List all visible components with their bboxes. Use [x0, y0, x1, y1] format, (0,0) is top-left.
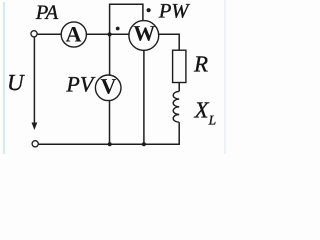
polarity dot current coil [116, 27, 120, 31]
voltmeter PV [95, 75, 121, 101]
junction node a [108, 32, 112, 36]
wire T1 to ammeter [37, 33, 61, 35]
svg-text:V: V [100, 74, 116, 99]
terminal T1 [31, 31, 37, 37]
svg-text:U: U [7, 70, 25, 95]
ammeter PA [61, 22, 86, 47]
svg-text:PW: PW [158, 0, 191, 22]
svg-text:R: R [193, 51, 208, 76]
wattmeter voltage-coil bridge wire [110, 4, 143, 34]
wire inductor to bottom rail [178, 122, 180, 144]
wire voltmeter to bottom rail [109, 101, 111, 145]
voltage arrow U [33, 37, 35, 123]
wire wattmeter to resistor [158, 34, 179, 50]
resistor R [173, 50, 186, 82]
wire resistor to inductor [178, 83, 180, 92]
svg-text:W: W [133, 21, 155, 46]
junction node c [142, 142, 146, 146]
svg-text:PV: PV [65, 72, 95, 97]
polarity dot voltage coil [147, 8, 151, 12]
svg-text:A: A [66, 21, 82, 46]
terminal T2 [32, 141, 38, 147]
wattmeter PW [129, 21, 159, 51]
wire ammeter to wattmeter [86, 33, 129, 35]
bottom rail wire [39, 143, 180, 145]
wire junction a to voltmeter [109, 34, 111, 75]
svg-text:PA: PA [35, 2, 59, 24]
inductor XL [173, 91, 179, 122]
wattmeter coil return wire [143, 50, 145, 145]
junction node b [108, 142, 112, 146]
